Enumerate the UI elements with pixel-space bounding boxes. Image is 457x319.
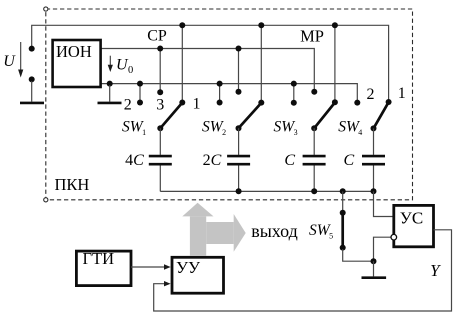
contact 3 of SW2 bbox=[236, 89, 242, 95]
svg-text:2: 2 bbox=[124, 96, 132, 113]
contact 1 of SW4 bbox=[386, 99, 392, 105]
node on U bus for SW3 bbox=[332, 22, 338, 28]
svg-text:SW3: SW3 bbox=[274, 118, 298, 136]
wire to bottom ground bbox=[373, 261, 375, 276]
contact 2 of SW2 bbox=[217, 100, 223, 106]
svg-text:ИОН: ИОН bbox=[56, 42, 92, 61]
svg-text:выход: выход bbox=[251, 221, 298, 241]
arrowhead into УУ (feedback) bbox=[164, 281, 171, 286]
wire comparator top input bbox=[374, 191, 393, 216]
node on U bus for SW2 bbox=[258, 22, 264, 28]
arrow for U0 bbox=[109, 56, 111, 66]
svg-text:C: C bbox=[344, 152, 355, 169]
svg-text:УУ: УУ bbox=[176, 258, 201, 277]
switch arm SW3 bbox=[314, 103, 334, 128]
wire ГТИ to УУ bbox=[131, 266, 166, 268]
switch arm SW2 bbox=[239, 103, 262, 128]
svg-text:0: 0 bbox=[128, 65, 133, 76]
wire U terminal to ground bbox=[31, 81, 33, 102]
node: ground bus tap under ИОН bbox=[107, 81, 113, 87]
switch arm SW1 bbox=[160, 103, 182, 128]
SW5 arm (closed) bbox=[341, 214, 344, 246]
svg-text:ПКН: ПКН bbox=[55, 175, 90, 194]
wire SW5 bottom to ground node bbox=[343, 249, 374, 261]
contact 3 of SW3 bbox=[311, 89, 317, 95]
svg-text:ГТИ: ГТИ bbox=[83, 249, 115, 268]
contact 2 of SW3 bbox=[291, 100, 297, 106]
SW5 top contact bbox=[340, 210, 346, 216]
node on ground bus for SW2 bbox=[217, 81, 223, 87]
ground under U terminal bbox=[20, 102, 44, 105]
arrowhead into УУ (clock) bbox=[164, 264, 171, 269]
wire stub to SW5 bbox=[342, 191, 344, 211]
ground under comparator bbox=[362, 276, 387, 279]
svg-text:SW4: SW4 bbox=[338, 119, 362, 137]
contact 1 of SW1 bbox=[179, 100, 185, 106]
wire stub contact 1 of SW2 bbox=[260, 25, 262, 100]
svg-text:1: 1 bbox=[398, 85, 406, 102]
wire stub contact 2 of SW1 bbox=[139, 84, 141, 101]
node C3 bottom bbox=[311, 188, 317, 194]
wire stub contact 3 of SW1 bbox=[159, 49, 161, 91]
svg-text:2: 2 bbox=[367, 86, 375, 103]
pivot of SW3 bbox=[311, 125, 317, 131]
block ГТИ (clock) bbox=[76, 251, 131, 286]
wire: CP bus from ИОН output (second horizontal, ends down at SW3 contact 3) bbox=[102, 49, 315, 90]
block ИОН bbox=[53, 40, 101, 87]
block УС (comparator) bbox=[394, 205, 434, 246]
node on CP bus for SW1 bbox=[157, 46, 163, 52]
wire: ground bus (third horizontal, ends down at SW4 contact 2) bbox=[101, 84, 357, 100]
node on U bus for SW1 bbox=[179, 22, 185, 28]
node on CP bus for SW2 bbox=[236, 46, 242, 52]
node on ground bus for SW1 bbox=[137, 81, 143, 87]
node ground junction bbox=[371, 258, 377, 264]
svg-text:СР: СР bbox=[147, 28, 167, 45]
wire Y feedback: УС output to УУ input bbox=[154, 230, 452, 311]
svg-text:SW2: SW2 bbox=[202, 118, 226, 136]
wire comparator inverting input to ground node bbox=[374, 237, 391, 261]
wire stub contact 1 of SW1 bbox=[181, 25, 183, 100]
pivot of SW4 bbox=[371, 125, 377, 131]
grey bus arrow up from УУ to ПКН bbox=[190, 216, 206, 256]
dashed block boundary ПКН bbox=[46, 9, 413, 200]
contact 1 of SW3 bbox=[332, 99, 338, 105]
wire stub contact 2 of SW3 bbox=[293, 84, 295, 101]
contact 2 of SW1 bbox=[137, 100, 143, 106]
input terminal U top contact bbox=[29, 46, 35, 52]
common bottom plate bus bbox=[160, 190, 373, 192]
pivot of SW1 bbox=[157, 125, 163, 131]
svg-text:Y: Y bbox=[430, 261, 441, 280]
grey bus arrow right (output) bbox=[206, 222, 234, 244]
connector circle bottom-left of dashed box bbox=[44, 198, 48, 202]
svg-text:4C: 4C bbox=[125, 152, 144, 169]
svg-text:SW5: SW5 bbox=[309, 222, 333, 240]
svg-text:C: C bbox=[284, 152, 295, 169]
wire to ground under ИОН bbox=[109, 85, 111, 102]
arrow for U bbox=[20, 42, 22, 71]
contact 1 of SW2 bbox=[258, 100, 264, 106]
svg-text:УС: УС bbox=[400, 209, 423, 228]
contact 3 of SW1 bbox=[157, 89, 163, 95]
wire stub contact 2 of SW2 bbox=[219, 84, 221, 101]
switch arm SW4 bbox=[374, 103, 389, 129]
ground under ИОН bbox=[98, 102, 122, 105]
node C4 bottom / comparator tap bbox=[371, 188, 377, 194]
wire stub contact 3 of SW2 bbox=[238, 49, 240, 90]
pivot of SW2 bbox=[236, 125, 242, 131]
svg-text:МР: МР bbox=[300, 26, 324, 45]
input terminal U bottom contact bbox=[29, 76, 35, 82]
svg-text:SW1: SW1 bbox=[122, 118, 146, 136]
wire: U input bus (top horizontal, ends down at SW4 contact 1) bbox=[32, 25, 389, 100]
block УУ (control unit) bbox=[172, 257, 224, 293]
contact 2 of SW4 bbox=[354, 100, 360, 106]
svg-text:2C: 2C bbox=[203, 152, 222, 169]
node 2C bottom bbox=[236, 188, 242, 194]
node on ground bus for SW3 bbox=[291, 81, 297, 87]
connector circle top-left of dashed box bbox=[44, 7, 48, 11]
wire stub contact 1 of SW3 bbox=[334, 25, 336, 100]
inverting input circle bbox=[391, 234, 397, 240]
svg-text:3: 3 bbox=[156, 97, 164, 114]
svg-text:U: U bbox=[3, 53, 16, 70]
node SW5 tap bbox=[340, 188, 346, 194]
SW5 bottom contact bbox=[340, 245, 346, 251]
svg-text:1: 1 bbox=[193, 96, 201, 113]
